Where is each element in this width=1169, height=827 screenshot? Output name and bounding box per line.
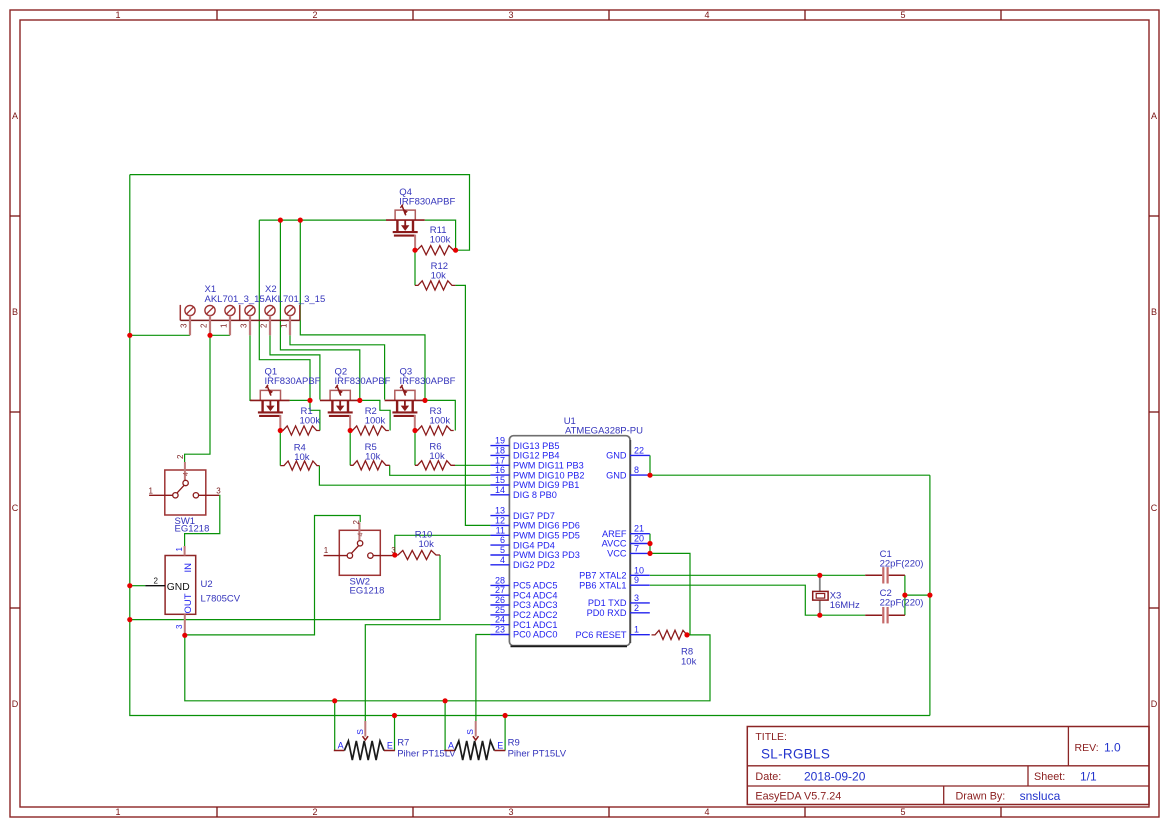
svg-text:PWM DIG10 PB2: PWM DIG10 PB2 [513,470,584,480]
svg-text:3: 3 [216,486,221,495]
svg-text:10k: 10k [419,539,435,550]
IC U1 pin 10 PB7 XTAL2 [579,565,650,580]
svg-text:18: 18 [495,445,505,455]
svg-text:4: 4 [500,555,505,565]
svg-text:PD1 TXD: PD1 TXD [588,598,627,608]
svg-text:1: 1 [149,486,154,495]
IC U1 pin 9 PB6 XTAL1 [579,575,650,590]
svg-text:snsluca: snsluca [1020,789,1061,803]
crystal X3 16MHz [813,575,828,615]
junction R2 left / Q2 source [348,428,353,433]
svg-text:B: B [12,307,18,317]
wire Q4 drain to R11 right [425,220,456,250]
wire X1 pin2 down to SW1 pin2 [185,335,210,462]
svg-text:2: 2 [200,323,209,328]
wire U1 pin23 to R9 wiper [476,635,491,722]
svg-text:10k: 10k [365,452,381,463]
svg-text:1/1: 1/1 [1080,770,1097,784]
switch SW1 EG1218 [149,462,219,515]
connector X2 pin 2 screw terminal [265,305,275,335]
wire U1 pin24 to R7 wiper [365,625,490,722]
svg-text:28: 28 [495,575,505,585]
IC U1 pin 24 PC1 ADC1 [490,615,557,630]
IC U1 pin 5 PWM DIG3 PD3 [490,545,579,560]
potentiometer R7 Piher PT15LV [334,721,395,760]
resistor R12 10k [415,281,455,290]
wire GND rail from U1 pin 8 to right vertical [650,474,930,476]
svg-text:PWM DIG6 PD6: PWM DIG6 PD6 [513,521,580,531]
svg-text:2: 2 [312,10,317,20]
junction left rail / R10 wire [127,617,132,622]
svg-text:24: 24 [495,615,505,625]
junction SW2 pin3 / R10 [392,552,397,557]
junction R8 right / VCC [684,632,689,637]
junction C1/C2 right [902,593,907,598]
svg-text:C: C [12,503,19,513]
svg-text:19: 19 [495,436,505,446]
svg-text:ATMEGA328P-PU: ATMEGA328P-PU [565,426,643,437]
svg-text:PB6 XTAL1: PB6 XTAL1 [579,580,626,590]
IC U1 pin 11 PWM DIG5 PD5 [490,525,579,540]
junction GND vertical / C2 [927,593,932,598]
wire R8 right to +5V rail [687,634,690,636]
wire left GND rail vertical + bottom E rail [130,175,930,716]
wire SW2 pin2 up-left-down to U2 pin3 net [185,516,360,635]
junction U2 pin3 OUT [182,633,187,638]
svg-text:D: D [1151,699,1158,709]
svg-text:DIG2 PD2: DIG2 PD2 [513,560,555,570]
svg-text:PWM DIG5 PD5: PWM DIG5 PD5 [513,531,580,541]
wire X2 pin1 to Q3 gate [290,335,385,399]
svg-text:DIG7 PD7: DIG7 PD7 [513,511,555,521]
wire X2 pin2 to Q2 gate [270,335,320,399]
junction X3 bottom [817,613,822,618]
transistor Q2 IRF830APBF [320,385,358,431]
svg-text:3: 3 [180,323,189,328]
wire R1 left to R4 left [279,431,281,466]
svg-text:R7: R7 [397,738,409,749]
wire Q1 drain exit [290,399,310,401]
svg-text:GND: GND [606,451,627,461]
resistor R1 100k [280,426,320,435]
svg-text:GND: GND [606,470,627,480]
svg-text:R9: R9 [508,738,520,749]
svg-text:2: 2 [176,454,185,459]
svg-text:3: 3 [508,10,513,20]
svg-text:A: A [1151,111,1157,121]
wire Q4 gate rail y220 [259,219,386,221]
svg-text:100k: 100k [300,416,321,427]
svg-text:15: 15 [495,475,505,485]
wire R3 left to R6 left [414,431,416,466]
svg-text:1: 1 [115,10,120,20]
svg-text:2: 2 [312,807,317,817]
IC U1 pin 27 PC4 ADC4 [490,585,557,600]
wire SW1 pin3 to U2 pin1 [185,495,220,546]
svg-text:10k: 10k [431,271,447,282]
svg-text:IN: IN [183,563,194,573]
junction GND pin22/pin8 [647,473,652,478]
wire pass-through to Q3 drain [300,220,425,400]
svg-text:14: 14 [495,485,505,495]
IC U1 pin 1 PC6 RESET [575,625,649,640]
svg-text:8: 8 [634,465,639,475]
wire R9 E to GND rail [504,716,506,751]
wire U2 pin2 GND stub [130,585,146,587]
svg-text:2: 2 [260,323,269,328]
svg-text:Piher PT15LV: Piher PT15LV [508,749,567,760]
wire X1 pin3 to left rail [130,334,190,336]
svg-text:26: 26 [495,595,505,605]
svg-text:1: 1 [634,625,639,635]
svg-text:EG1218: EG1218 [175,523,210,534]
potentiometer R9 Piher PT15LV [444,721,505,760]
wire U1 pin10 XTAL2 to C1/X3 [650,574,865,576]
connector X1 pin 2 screw terminal [205,305,215,335]
svg-text:13: 13 [495,506,505,516]
svg-text:D: D [12,699,19,709]
junction Q2 drain [357,398,362,403]
svg-text:1: 1 [280,323,289,328]
connector X2 pin 1 screw terminal [285,305,295,335]
wire Q3 drain jog to R3 right [425,400,455,430]
svg-text:11: 11 [496,525,505,535]
transistor Q4 IRF830APBF [386,205,425,251]
wire R5 right to U1 pin16 [390,465,491,475]
IC U1 pin 22 GND [606,445,650,460]
IC U1 pin 12 PWM DIG6 PD6 [490,515,579,530]
svg-text:1: 1 [220,323,229,328]
IC U1 pin 15 PWM DIG9 PB1 [490,475,579,490]
svg-text:TITLE:: TITLE: [755,731,787,743]
svg-text:2: 2 [154,576,159,585]
IC U1 pin 17 PWM DIG11 PB3 [490,455,583,470]
title block frame [747,727,1149,805]
svg-text:AREF: AREF [602,529,627,539]
svg-text:PC1 ADC1: PC1 ADC1 [513,620,557,630]
connector X1/X2 body bars [180,305,299,321]
junction X3 top [817,573,822,578]
svg-text:Drawn By:: Drawn By: [956,791,1006,803]
svg-text:PWM DIG11 PB3: PWM DIG11 PB3 [513,461,584,471]
svg-text:21: 21 [634,524,644,534]
IC U1 pin 19 DIG13 PB5 [490,436,559,451]
svg-text:2: 2 [352,520,361,525]
junction Q4 gate rail / Q3 drain branch [298,218,303,223]
svg-text:10k: 10k [429,451,445,462]
svg-text:5: 5 [500,545,505,555]
svg-text:2018-09-20: 2018-09-20 [804,770,866,784]
regulator U2 L7805CV body [145,546,195,635]
svg-text:4: 4 [358,533,365,537]
svg-text:REV:: REV: [1075,742,1099,754]
svg-text:22pF(220): 22pF(220) [880,559,924,570]
wire Q2 drain jog to R2 right [360,400,390,430]
IC U1 pin 8 GND [606,465,650,480]
resistor R2 100k [350,426,389,435]
wire R6 right to U1 pin17 [455,464,490,466]
IC U1 body [509,436,630,646]
svg-text:9: 9 [634,575,639,585]
resistor R10 10k [395,550,440,559]
svg-text:SL-RGBLS: SL-RGBLS [761,747,830,762]
svg-text:AKL701_3_15: AKL701_3_15 [265,294,325,305]
junction Q1 drain [307,398,312,403]
svg-text:10k: 10k [294,452,310,463]
resistor R3 100k [415,426,454,435]
svg-text:GND: GND [167,582,190,593]
capacitor C2 [865,607,905,623]
wire pass-through to Q1 drain [259,220,310,400]
IC U1 pin 26 PC3 ADC3 [490,595,557,610]
capacitor C1 [865,567,905,583]
resistor R5 10k [350,461,390,470]
connector X1 pin 1 screw terminal [225,305,235,335]
IC U1 pin 16 PWM DIG10 PB2 [490,465,584,480]
svg-text:25: 25 [495,605,505,615]
svg-text:E: E [497,740,503,750]
svg-text:1: 1 [175,547,184,552]
svg-text:IRF830APBF: IRF830APBF [400,376,456,387]
wire Q4 source to R12 left [414,250,416,285]
junction R11 left / Q4 source [412,248,417,253]
IC U1 pin 3 PD1 TXD [588,593,650,608]
IC U1 pin 18 DIG12 PB4 [490,445,559,460]
wire U1 pin21 AREF to AVCC VCC [649,534,651,554]
svg-text:EG1218: EG1218 [350,586,385,597]
svg-text:23: 23 [495,625,505,635]
junction R9 E / GND rail [503,713,508,718]
junction R3 left / Q3 source [412,428,417,433]
svg-text:Sheet:: Sheet: [1034,771,1065,783]
wire R7 E to GND rail [394,716,396,751]
svg-text:EasyEDA V5.7.24: EasyEDA V5.7.24 [755,791,841,803]
svg-text:1.0: 1.0 [1104,741,1121,755]
wire R2 left to R5 left [349,431,351,466]
svg-text:E: E [387,740,393,750]
svg-text:IRF830APBF: IRF830APBF [399,197,455,208]
svg-text:27: 27 [495,585,505,595]
svg-text:7: 7 [634,543,639,553]
svg-text:5: 5 [900,10,905,20]
IC U1 pin 7 VCC [607,543,650,558]
svg-text:3: 3 [240,323,249,328]
wire R9 A to +5V rail [444,701,446,751]
svg-text:100k: 100k [365,416,386,427]
svg-text:S: S [465,729,475,735]
svg-text:DIG13 PB5: DIG13 PB5 [513,441,559,451]
IC U1 pin 28 PC5 ADC5 [490,575,557,590]
junction R7 E / GND rail [392,713,397,718]
svg-text:12: 12 [495,515,505,525]
switch SW2 EG1218 [324,522,394,575]
svg-text:100k: 100k [430,235,451,246]
junction Q3 drain [422,398,427,403]
svg-text:6: 6 [500,535,505,545]
svg-text:L7805CV: L7805CV [201,594,241,605]
svg-text:5: 5 [900,807,905,817]
svg-text:1: 1 [115,807,120,817]
svg-text:10: 10 [634,565,644,575]
svg-text:PC5 ADC5: PC5 ADC5 [513,581,557,591]
svg-text:IRF830APBF: IRF830APBF [335,376,391,387]
junction R11 right / top rail [453,248,458,253]
svg-text:C: C [1151,503,1158,513]
IC U1 pin 2 PD0 RXD [587,603,650,618]
resistor R11 100k [415,246,456,255]
svg-text:4: 4 [704,10,709,20]
IC U1 pin 25 PC2 ADC2 [490,605,557,620]
junction VCC pin7 [647,551,652,556]
junction R9 A / +5V rail [443,698,448,703]
svg-text:PC3 ADC3: PC3 ADC3 [513,600,557,610]
junction X1 pin2 / pin1 [207,333,212,338]
svg-text:AKL701_3_15: AKL701_3_15 [205,294,265,305]
svg-text:PWM DIG3 PD3: PWM DIG3 PD3 [513,550,580,560]
svg-text:AVCC: AVCC [602,539,627,549]
svg-text:PC4 ADC4: PC4 ADC4 [513,590,557,600]
wire C1 right down to C2 right [904,575,906,615]
wire R4 right to U1 pin15 [319,466,490,486]
svg-text:Date:: Date: [755,771,781,783]
svg-text:4: 4 [183,472,190,476]
wire U1 pin9 XTAL1 to X3 bottom [650,585,865,615]
svg-text:17: 17 [495,455,505,465]
IC U1 pin 13 DIG7 PD7 [490,506,554,521]
svg-text:A: A [338,740,344,750]
svg-text:2: 2 [634,603,639,613]
svg-text:PB7 XTAL2: PB7 XTAL2 [579,571,626,581]
IC U1 pin 4 DIG2 PD2 [490,555,554,570]
wire pass-through to Q2 drain [280,220,359,400]
IC U1 pin 21 AREF [602,524,650,539]
svg-text:VCC: VCC [607,549,627,559]
svg-text:16: 16 [495,465,505,475]
svg-text:20: 20 [634,534,644,544]
svg-text:3: 3 [508,807,513,817]
svg-text:A: A [12,111,18,121]
wire R10 left to U1 pin11 [395,535,491,555]
wire U2 OUT rail to R8 (+5V A-rail) [185,635,710,701]
wire Q1 drain jog to R1 right [310,400,320,430]
wire VCC pin7 down to R8 right [650,553,690,635]
connector X2 pin 3 screw terminal [245,305,255,335]
IC U1 pin 14 DIG 8 PB0 [490,485,557,500]
svg-text:A: A [448,740,454,750]
svg-text:22pF(220): 22pF(220) [880,598,924,609]
svg-text:22: 22 [634,445,644,455]
connector X1 pin 3 screw terminal [185,305,195,335]
svg-text:10k: 10k [681,657,697,668]
svg-text:PC6 RESET: PC6 RESET [575,630,626,640]
junction AVCC pin20 [647,541,652,546]
IC U1 pin 20 AVCC [602,534,650,549]
wire R7 A to +5V rail [334,701,336,751]
transistor Q1 IRF830APBF [250,385,290,431]
svg-text:16MHz: 16MHz [830,600,860,611]
svg-text:S: S [355,729,365,735]
svg-text:PWM DIG9 PB1: PWM DIG9 PB1 [513,480,579,490]
svg-text:DIG 8 PB0: DIG 8 PB0 [513,490,557,500]
svg-text:B: B [1151,307,1157,317]
junction R1 left / Q1 source [278,428,283,433]
resistor R4 10k [280,461,319,470]
IC U1 pin 6 DIG4 PD4 [490,535,554,550]
svg-text:U2: U2 [201,579,213,590]
wire C2 junction to GND vertical [905,594,930,596]
wire Q2 drain exit [358,399,360,401]
wire X2 pin3 to Q1 gate [250,335,252,400]
svg-text:PD0 RXD: PD0 RXD [587,608,627,618]
svg-text:4: 4 [704,807,709,817]
svg-text:100k: 100k [430,416,451,427]
svg-text:3: 3 [634,593,639,603]
wire R12 right to U1 pin12 [455,285,490,525]
junction R7 A / +5V rail [332,698,337,703]
transistor Q3 IRF830APBF [385,385,425,431]
junction U2 pin2 GND [127,583,132,588]
svg-text:PC2 ADC2: PC2 ADC2 [513,610,557,620]
IC U1 pin 23 PC0 ADC0 [490,625,557,640]
junction left rail / X1 pin3 [127,333,132,338]
resistor R8 10k [652,630,688,639]
wire GND right vertical from pin8 rail [929,475,931,715]
svg-text:DIG4 PD4: DIG4 PD4 [513,540,555,550]
wire R10 right to left rail [130,555,440,620]
wire Q3 drain exit [423,399,426,401]
wire U1 pin22 to pin8 GND [649,455,651,475]
svg-text:DIG12 PB4: DIG12 PB4 [513,451,559,461]
svg-text:PC0 ADC0: PC0 ADC0 [513,630,557,640]
svg-text:1: 1 [324,546,329,555]
svg-text:IRF830APBF: IRF830APBF [265,376,321,387]
junction Q4 gate rail / Q2 drain branch [278,218,283,223]
svg-text:OUT: OUT [183,593,194,613]
wire top rail from left rail to R11 right [130,175,470,251]
resistor R6 10k [415,461,455,470]
wire X1 pin1 to X1 pin2 junction [210,334,230,336]
svg-text:3: 3 [175,624,184,629]
